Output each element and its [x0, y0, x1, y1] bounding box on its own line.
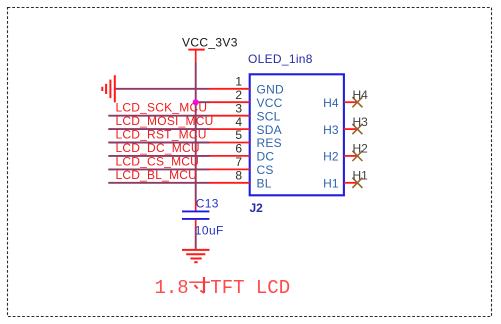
svg-text:DC: DC	[257, 150, 275, 164]
power flag VCC_3V3	[182, 36, 238, 63]
connector J2 OLED_1in8 body	[248, 52, 344, 215]
wire pin7	[108, 168, 209, 170]
svg-text:1.8: 1.8	[155, 277, 189, 299]
caption 1.8 cun TFT LCD	[155, 277, 291, 299]
no-connect H2	[352, 142, 368, 161]
svg-text:H1: H1	[353, 169, 369, 183]
svg-text:5: 5	[235, 128, 242, 142]
svg-text:H4: H4	[323, 96, 339, 110]
wire pin2 VCC	[196, 101, 210, 103]
svg-text:H3: H3	[323, 123, 339, 137]
J2 pin 3 SCL	[210, 101, 281, 123]
svg-text:SDA: SDA	[257, 123, 282, 137]
svg-text:VCC_3V3: VCC_3V3	[182, 36, 238, 50]
svg-text:H3: H3	[353, 115, 369, 129]
junction	[193, 99, 199, 105]
svg-text:LCD_SCK_MCU: LCD_SCK_MCU	[116, 101, 208, 115]
J2 pin H1	[323, 177, 357, 191]
svg-text:H4: H4	[353, 88, 369, 102]
svg-text:LCD_RST_MCU: LCD_RST_MCU	[116, 128, 207, 142]
svg-text:H2: H2	[323, 150, 339, 164]
wire pin4	[108, 128, 209, 130]
svg-text:4: 4	[235, 115, 242, 129]
svg-text:SCL: SCL	[257, 109, 281, 123]
wire pin8	[108, 182, 209, 184]
svg-text:H2: H2	[353, 142, 369, 156]
wire pin1 GND	[116, 88, 210, 90]
svg-text:LCD_CS_MCU: LCD_CS_MCU	[116, 154, 200, 168]
J2 pin 5 RES	[210, 128, 282, 150]
svg-text:LCD_BL_MCU: LCD_BL_MCU	[116, 168, 198, 182]
svg-text:1: 1	[235, 75, 242, 89]
wire C13 to ground	[195, 227, 197, 250]
capacitor C13	[182, 196, 224, 237]
svg-text:C13: C13	[196, 196, 219, 210]
wire VCC vertical	[195, 63, 197, 202]
svg-text:6: 6	[235, 142, 242, 156]
svg-text:TFT LCD: TFT LCD	[210, 277, 290, 299]
J2 pin H3	[323, 123, 357, 137]
svg-text:LCD_DC_MCU: LCD_DC_MCU	[116, 141, 200, 155]
J2 pin 1 GND	[210, 75, 285, 97]
svg-text:7: 7	[235, 155, 242, 169]
svg-text:8: 8	[235, 169, 242, 183]
svg-text:10uF: 10uF	[195, 224, 224, 238]
J2 pin 6 DC	[210, 142, 275, 164]
wire pin5	[108, 142, 209, 144]
ground bottom	[182, 250, 210, 262]
no-connect H1	[352, 169, 368, 188]
svg-text:OLED_1in8: OLED_1in8	[248, 52, 313, 66]
wire pin3	[108, 115, 209, 117]
svg-text:BL: BL	[257, 177, 272, 191]
J2 pin 8 BL	[210, 169, 272, 191]
J2 pin H2	[323, 150, 357, 164]
svg-text:RES: RES	[257, 136, 282, 150]
svg-text:LCD_MOSI_MCU: LCD_MOSI_MCU	[116, 114, 214, 128]
ground left	[102, 75, 115, 102]
J2 pin H4	[323, 96, 357, 110]
J2 pin 2 VCC	[210, 88, 283, 110]
svg-text:H1: H1	[323, 177, 339, 191]
no-connect H4	[352, 88, 368, 107]
J2 pin 7 CS	[210, 155, 274, 177]
svg-text:J2: J2	[250, 201, 264, 215]
wire pin6	[108, 155, 209, 157]
no-connect H3	[352, 115, 368, 134]
svg-text:GND: GND	[257, 83, 285, 97]
svg-text:VCC: VCC	[257, 96, 283, 110]
J2 pin 4 SDA	[210, 115, 282, 137]
svg-text:2: 2	[235, 88, 242, 102]
svg-text:CS: CS	[257, 163, 274, 177]
svg-text:3: 3	[235, 101, 242, 115]
